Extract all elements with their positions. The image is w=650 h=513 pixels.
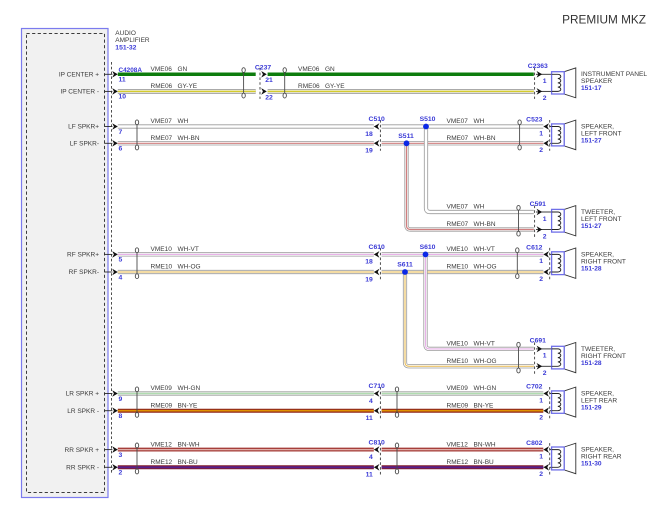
svg-text:SPEAKER: SPEAKER [581, 78, 612, 85]
svg-text:1: 1 [539, 453, 543, 460]
svg-text:WH-VT: WH-VT [178, 246, 199, 253]
svg-text:151-27: 151-27 [581, 223, 602, 230]
svg-text:RME10: RME10 [151, 264, 173, 271]
svg-text:1: 1 [543, 216, 547, 223]
svg-text:VME10: VME10 [447, 341, 469, 348]
svg-text:RR SPKR -: RR SPKR - [66, 465, 99, 472]
svg-text:S510: S510 [420, 116, 436, 123]
svg-text:VME10: VME10 [151, 246, 173, 253]
svg-text:RME07: RME07 [447, 135, 469, 142]
svg-text:RF SPKR-: RF SPKR- [69, 269, 99, 276]
svg-text:BN-YE: BN-YE [178, 402, 199, 409]
svg-text:PREMIUM MKZ: PREMIUM MKZ [562, 13, 646, 27]
svg-text:10: 10 [119, 94, 127, 101]
svg-text:WH-BN: WH-BN [474, 221, 496, 228]
svg-text:VME07: VME07 [447, 204, 469, 211]
svg-text:RME12: RME12 [447, 459, 469, 466]
svg-text:LEFT FRONT: LEFT FRONT [581, 130, 622, 137]
svg-text:RME07: RME07 [447, 221, 469, 228]
svg-text:SPEAKER,: SPEAKER, [581, 390, 614, 397]
svg-text:19: 19 [365, 276, 373, 283]
svg-text:2: 2 [539, 276, 543, 283]
svg-text:C4208A: C4208A [119, 67, 143, 74]
svg-text:2: 2 [539, 471, 543, 478]
svg-text:VME10: VME10 [447, 246, 469, 253]
svg-text:2: 2 [539, 415, 543, 422]
svg-text:RME09: RME09 [151, 402, 173, 409]
svg-text:WH-GN: WH-GN [178, 385, 201, 392]
svg-text:BN-WH: BN-WH [474, 441, 496, 448]
svg-text:AUDIO: AUDIO [115, 30, 136, 37]
svg-text:19: 19 [365, 148, 373, 155]
svg-text:WH: WH [474, 204, 485, 211]
svg-text:RME07: RME07 [151, 135, 173, 142]
svg-text:IP CENTER -: IP CENTER - [60, 89, 99, 96]
svg-text:C691: C691 [530, 338, 546, 345]
svg-text:LEFT REAR: LEFT REAR [581, 397, 617, 404]
svg-text:1: 1 [539, 130, 543, 137]
svg-text:RME10: RME10 [447, 358, 469, 365]
svg-text:LR SPKR +: LR SPKR + [66, 391, 100, 398]
svg-text:WH-VT: WH-VT [474, 246, 495, 253]
svg-text:151-17: 151-17 [581, 85, 602, 92]
svg-text:RME06: RME06 [298, 83, 320, 90]
svg-text:LF SPKR+: LF SPKR+ [68, 124, 99, 131]
svg-text:BN-BU: BN-BU [178, 459, 199, 466]
svg-text:INSTRUMENT PANEL: INSTRUMENT PANEL [581, 71, 647, 78]
svg-text:AMPLIFIER: AMPLIFIER [115, 37, 150, 44]
svg-text:18: 18 [365, 259, 373, 266]
svg-text:WH: WH [178, 118, 189, 125]
svg-text:RIGHT FRONT: RIGHT FRONT [581, 353, 626, 360]
svg-text:151-29: 151-29 [581, 404, 602, 411]
svg-text:S610: S610 [420, 244, 436, 251]
svg-text:WH: WH [474, 118, 485, 125]
svg-text:C802: C802 [526, 440, 542, 447]
svg-text:2: 2 [539, 147, 543, 154]
svg-text:TWEETER,: TWEETER, [581, 346, 615, 353]
svg-text:3: 3 [119, 452, 123, 459]
svg-text:WH-VT: WH-VT [474, 341, 495, 348]
svg-text:2: 2 [543, 95, 547, 102]
svg-text:VME07: VME07 [447, 118, 469, 125]
svg-text:WH-OG: WH-OG [178, 264, 201, 271]
svg-text:4: 4 [119, 274, 123, 281]
svg-text:RIGHT FRONT: RIGHT FRONT [581, 258, 626, 265]
svg-text:RME12: RME12 [151, 459, 173, 466]
svg-text:LR SPKR -: LR SPKR - [67, 408, 99, 415]
svg-text:C237: C237 [255, 64, 271, 71]
svg-text:LF SPKR-: LF SPKR- [70, 141, 99, 148]
svg-text:2: 2 [543, 233, 547, 240]
svg-text:S611: S611 [397, 262, 413, 269]
svg-text:C702: C702 [526, 384, 542, 391]
svg-text:1: 1 [539, 397, 543, 404]
svg-text:2: 2 [543, 370, 547, 377]
svg-text:RIGHT REAR: RIGHT REAR [581, 454, 622, 461]
svg-text:151-28: 151-28 [581, 265, 602, 272]
svg-text:S511: S511 [398, 133, 414, 140]
svg-text:18: 18 [365, 131, 373, 138]
svg-text:VME12: VME12 [447, 441, 469, 448]
svg-text:TWEETER,: TWEETER, [581, 209, 615, 216]
svg-text:6: 6 [119, 146, 123, 153]
svg-text:VME12: VME12 [151, 441, 173, 448]
svg-text:WH-OG: WH-OG [474, 358, 497, 365]
svg-text:RR SPKR +: RR SPKR + [65, 447, 100, 454]
svg-text:4: 4 [369, 398, 373, 405]
svg-text:1: 1 [543, 78, 547, 85]
svg-text:VME06: VME06 [151, 66, 173, 73]
svg-text:151-32: 151-32 [115, 45, 136, 52]
svg-text:WH-GN: WH-GN [474, 385, 497, 392]
svg-text:RME06: RME06 [151, 83, 173, 90]
svg-text:BN-YE: BN-YE [474, 402, 495, 409]
svg-text:SPEAKER,: SPEAKER, [581, 447, 614, 454]
svg-text:IP CENTER +: IP CENTER + [59, 72, 99, 79]
svg-text:C510: C510 [369, 116, 385, 123]
svg-text:LEFT FRONT: LEFT FRONT [581, 216, 622, 223]
svg-text:VME09: VME09 [447, 385, 469, 392]
svg-text:C610: C610 [369, 244, 385, 251]
svg-text:21: 21 [265, 77, 273, 84]
svg-text:151-30: 151-30 [581, 461, 602, 468]
svg-text:C523: C523 [526, 117, 542, 124]
svg-text:11: 11 [119, 77, 126, 84]
svg-text:BN-WH: BN-WH [178, 441, 200, 448]
svg-text:4: 4 [369, 454, 373, 461]
svg-text:11: 11 [366, 472, 373, 479]
svg-text:9: 9 [119, 396, 123, 403]
svg-text:GY-YE: GY-YE [178, 83, 198, 90]
svg-text:151-27: 151-27 [581, 137, 602, 144]
svg-text:C810: C810 [369, 439, 385, 446]
svg-text:C710: C710 [369, 383, 385, 390]
svg-text:RME10: RME10 [447, 264, 469, 271]
svg-text:GY-YE: GY-YE [325, 83, 345, 90]
svg-text:VME09: VME09 [151, 385, 173, 392]
svg-text:1: 1 [543, 353, 547, 360]
svg-text:GN: GN [178, 66, 188, 73]
svg-text:RME09: RME09 [447, 402, 469, 409]
svg-text:1: 1 [539, 258, 543, 265]
svg-text:C2363: C2363 [528, 63, 548, 70]
svg-text:WH-BN: WH-BN [178, 135, 200, 142]
svg-text:7: 7 [119, 129, 123, 136]
svg-text:VME07: VME07 [151, 118, 173, 125]
svg-text:SPEAKER,: SPEAKER, [581, 251, 614, 258]
svg-text:22: 22 [265, 94, 273, 101]
svg-text:WH-OG: WH-OG [474, 264, 497, 271]
svg-text:RF SPKR+: RF SPKR+ [67, 252, 99, 259]
svg-text:2: 2 [119, 470, 123, 477]
svg-text:GN: GN [325, 66, 335, 73]
svg-text:C612: C612 [526, 245, 542, 252]
svg-text:WH-BN: WH-BN [474, 135, 496, 142]
svg-text:BN-BU: BN-BU [474, 459, 495, 466]
svg-text:C591: C591 [530, 201, 546, 208]
svg-text:SPEAKER,: SPEAKER, [581, 123, 614, 130]
svg-text:11: 11 [366, 415, 373, 422]
svg-text:VME06: VME06 [298, 66, 320, 73]
svg-text:151-28: 151-28 [581, 360, 602, 367]
svg-text:8: 8 [119, 413, 123, 420]
svg-text:5: 5 [119, 257, 123, 264]
